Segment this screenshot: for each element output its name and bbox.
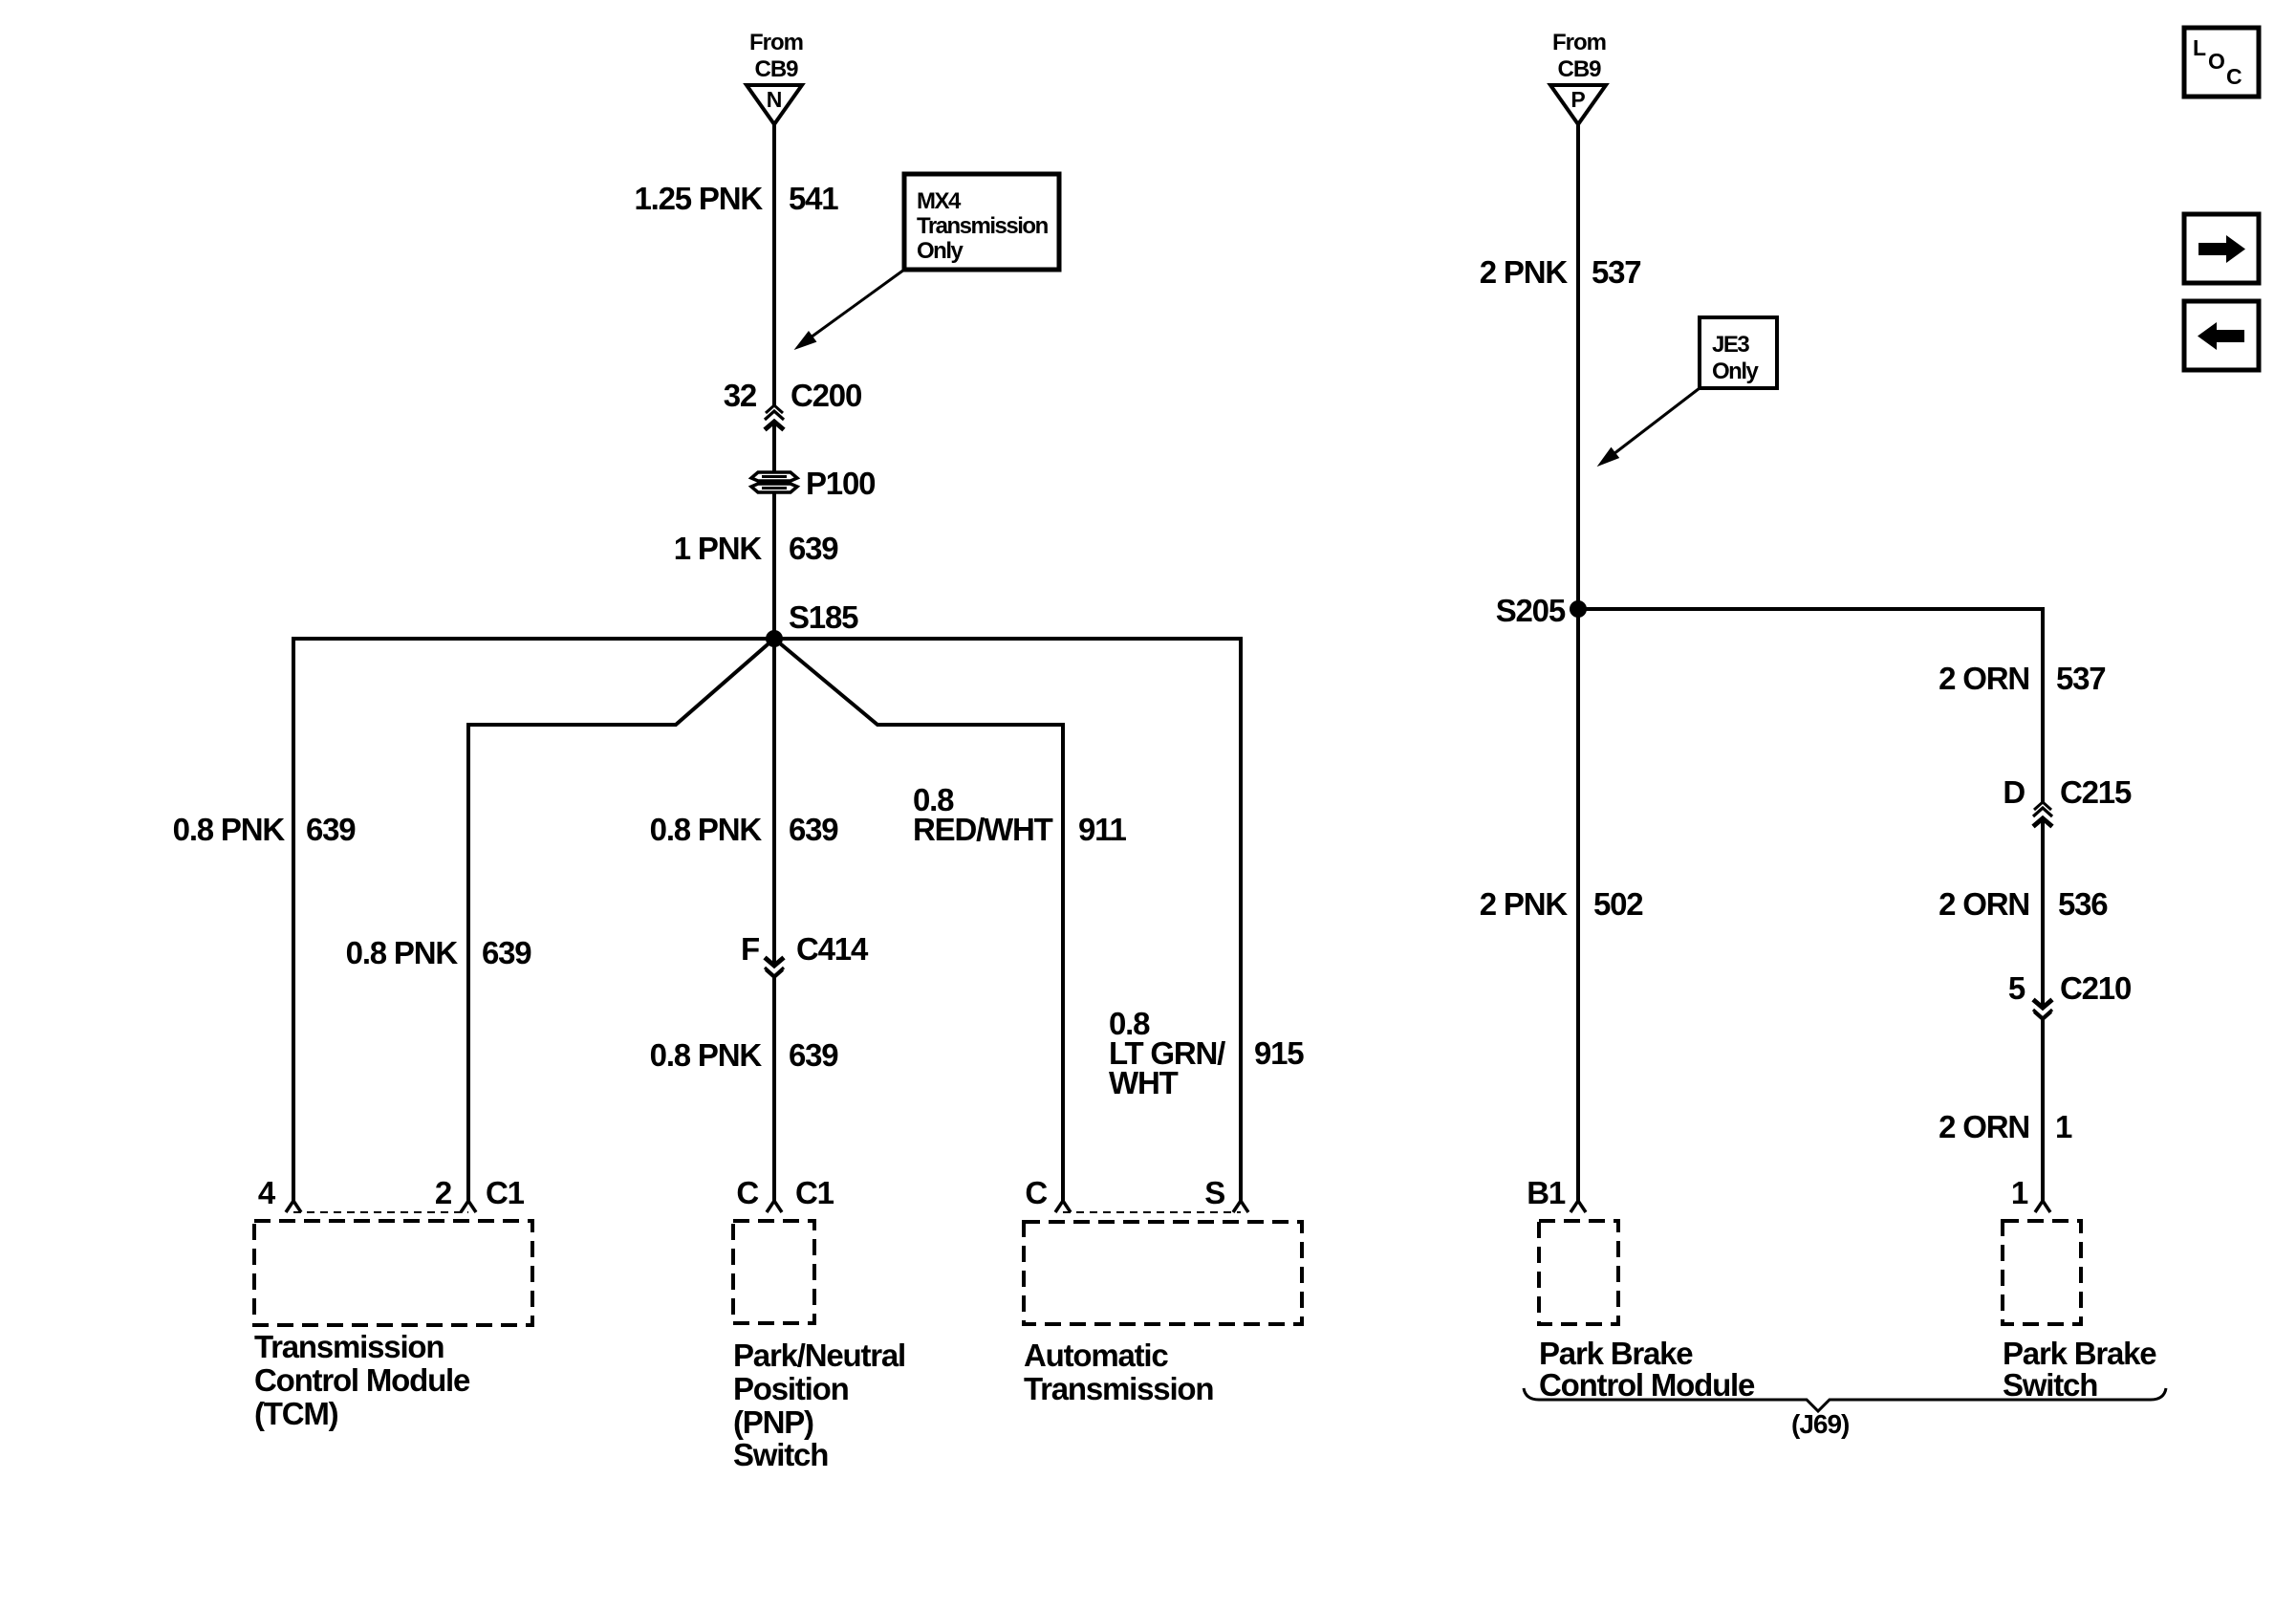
svg-text:C1: C1 <box>486 1175 525 1210</box>
svg-text:Park Brake: Park Brake <box>2003 1336 2156 1371</box>
svg-text:2 ORN: 2 ORN <box>1939 886 2029 922</box>
svg-text:F: F <box>741 931 759 967</box>
svg-text:639: 639 <box>482 935 531 970</box>
leader arrow from JE3 box to wire 537 <box>1598 388 1700 466</box>
wire 541: triangle N down to C200 <box>772 124 776 405</box>
wire: C200 to grommet P100 <box>772 423 776 473</box>
svg-text:L: L <box>2193 35 2206 60</box>
svg-text:(PNP): (PNP) <box>733 1404 813 1440</box>
svg-text:Control Module: Control Module <box>254 1362 470 1398</box>
svg-text:CB9: CB9 <box>754 56 798 82</box>
splice S205 junction dot <box>1570 600 1587 618</box>
svg-text:1: 1 <box>2011 1175 2028 1210</box>
svg-text:0.8 PNK: 0.8 PNK <box>173 812 286 847</box>
PNP pin C terminal <box>767 1201 782 1212</box>
transmission pin S terminal <box>1233 1201 1248 1212</box>
svg-text:1: 1 <box>2055 1109 2072 1144</box>
svg-text:(TCM): (TCM) <box>254 1396 338 1431</box>
svg-text:Transmission: Transmission <box>1024 1371 1213 1406</box>
svg-text:C1: C1 <box>795 1175 834 1210</box>
transmission pin C terminal <box>1055 1201 1071 1212</box>
svg-text:0.8 PNK: 0.8 PNK <box>650 812 763 847</box>
wire: C210 down to park brake switch pin 1 <box>2041 1020 2045 1202</box>
svg-text:B1: B1 <box>1527 1175 1566 1210</box>
connector face dashed line TCM pins 4-2 <box>293 1211 468 1213</box>
next page arrow icon (right) <box>2184 214 2259 283</box>
component box Transmission Control Module (TCM) <box>254 1221 532 1325</box>
wire 537: triangle P down to splice S205 <box>1576 124 1580 609</box>
svg-text:537: 537 <box>2056 661 2105 696</box>
svg-text:1 PNK: 1 PNK <box>674 531 763 566</box>
svg-text:Switch: Switch <box>733 1437 828 1472</box>
in-line connector C215 <box>2033 802 2052 827</box>
svg-text:RED/WHT: RED/WHT <box>913 812 1053 847</box>
svg-text:911: 911 <box>1078 812 1126 847</box>
connector triangle N (from CB9) <box>747 85 802 124</box>
wire: diagonal branch S185 to automatic transmission pin C <box>774 639 1063 1201</box>
svg-text:From: From <box>1552 30 1606 55</box>
svg-text:639: 639 <box>789 1037 838 1073</box>
svg-text:2: 2 <box>435 1175 452 1210</box>
svg-text:2 PNK: 2 PNK <box>1480 886 1569 922</box>
svg-text:536: 536 <box>2058 886 2108 922</box>
svg-text:Park Brake: Park Brake <box>1539 1336 1693 1371</box>
svg-text:2 PNK: 2 PNK <box>1480 254 1569 290</box>
TCM pin 2 terminal <box>461 1201 476 1212</box>
svg-text:5: 5 <box>2008 970 2025 1006</box>
wire: diagonal branch S185 to TCM pin 2 <box>468 639 774 1201</box>
note box JE3 Only <box>1700 317 1777 388</box>
in-line connector C210 <box>2033 1000 2052 1020</box>
svg-text:Position: Position <box>733 1371 849 1406</box>
svg-text:D: D <box>2003 774 2025 810</box>
svg-text:2 ORN: 2 ORN <box>1939 1109 2029 1144</box>
wire 639: P100 to splice S185 <box>772 493 776 639</box>
svg-text:C215: C215 <box>2060 774 2132 810</box>
svg-text:S205: S205 <box>1496 593 1566 628</box>
wire: C215 down to C210 <box>2041 819 2045 1009</box>
svg-text:639: 639 <box>306 812 356 847</box>
svg-text:WHT: WHT <box>1109 1065 1179 1100</box>
svg-text:0.8 PNK: 0.8 PNK <box>650 1037 763 1073</box>
svg-text:O: O <box>2208 49 2225 74</box>
svg-text:Automatic: Automatic <box>1024 1338 1168 1373</box>
svg-text:2 ORN: 2 ORN <box>1939 661 2029 696</box>
svg-text:Only: Only <box>917 238 964 264</box>
leader arrow from MX4 box to wire 541 <box>795 270 904 349</box>
grommet P100 <box>751 472 797 492</box>
in-line connector C414 <box>765 958 784 978</box>
svg-text:C200: C200 <box>791 378 861 413</box>
component box Park/Neutral Position (PNP) Switch <box>733 1221 814 1323</box>
svg-text:MX4: MX4 <box>917 188 962 214</box>
svg-text:Transmission: Transmission <box>254 1329 444 1364</box>
svg-text:C: C <box>736 1175 758 1210</box>
svg-text:S: S <box>1204 1175 1224 1210</box>
park brake control module pin B1 terminal <box>1570 1201 1586 1212</box>
component box Park Brake Switch <box>2003 1221 2081 1324</box>
svg-text:541: 541 <box>789 181 838 216</box>
svg-text:C210: C210 <box>2060 970 2131 1006</box>
svg-text:P100: P100 <box>806 466 875 501</box>
in-line connector C200 <box>765 405 784 430</box>
svg-text:502: 502 <box>1593 886 1643 922</box>
svg-text:Transmission: Transmission <box>917 213 1049 239</box>
svg-text:1.25 PNK: 1.25 PNK <box>635 181 764 216</box>
wire: left branch down to TCM pin 4 <box>292 637 295 1201</box>
svg-text:639: 639 <box>789 812 838 847</box>
svg-text:From: From <box>749 30 803 55</box>
svg-text:32: 32 <box>724 378 757 413</box>
svg-text:C: C <box>2226 64 2242 89</box>
splice S185 junction dot <box>766 630 783 647</box>
bus wire from S185 right to transmission pin S branch <box>774 637 1241 641</box>
component box Park Brake Control Module <box>1539 1221 1618 1324</box>
previous page arrow icon (left) <box>2184 301 2259 370</box>
LOC legend icon <box>2184 28 2259 97</box>
svg-text:Switch: Switch <box>2003 1367 2097 1403</box>
svg-text:C414: C414 <box>796 931 869 967</box>
svg-text:Only: Only <box>1712 359 1759 384</box>
wire: C414 down to PNP switch pin C <box>772 978 776 1202</box>
svg-text:CB9: CB9 <box>1557 56 1601 82</box>
svg-text:(J69): (J69) <box>1791 1409 1849 1439</box>
note box MX4 Transmission Only <box>904 174 1059 270</box>
wire: center branch S185 down to C414 <box>772 639 776 966</box>
wire 502: S205 down to park brake control module pin B1 <box>1576 609 1580 1201</box>
svg-text:0.8 PNK: 0.8 PNK <box>346 935 459 970</box>
svg-text:4: 4 <box>258 1175 276 1210</box>
svg-text:JE3: JE3 <box>1712 332 1749 358</box>
svg-text:N: N <box>767 87 783 112</box>
bus wire from S205 right to park brake switch branch <box>1578 609 2043 803</box>
TCM pin 4 terminal <box>286 1201 301 1212</box>
svg-text:639: 639 <box>789 531 838 566</box>
svg-text:S185: S185 <box>789 599 858 635</box>
harness brace (J69) <box>1524 1388 2166 1439</box>
park brake switch pin 1 terminal <box>2035 1201 2050 1212</box>
connector triangle P (from CB9) <box>1550 85 1606 124</box>
svg-text:537: 537 <box>1592 254 1640 290</box>
bus wire from S185 left to TCM pin 4 branch <box>292 637 774 641</box>
svg-text:915: 915 <box>1254 1035 1304 1071</box>
svg-text:Park/Neutral: Park/Neutral <box>733 1338 905 1373</box>
svg-text:Control Module: Control Module <box>1539 1367 1755 1403</box>
svg-text:C: C <box>1025 1175 1047 1210</box>
connector face dashed line transmission pins C-S <box>1063 1211 1241 1213</box>
wire: right branch down to transmission pin S <box>1239 637 1243 1201</box>
component box Automatic Transmission <box>1024 1222 1302 1324</box>
svg-text:P: P <box>1570 87 1585 112</box>
